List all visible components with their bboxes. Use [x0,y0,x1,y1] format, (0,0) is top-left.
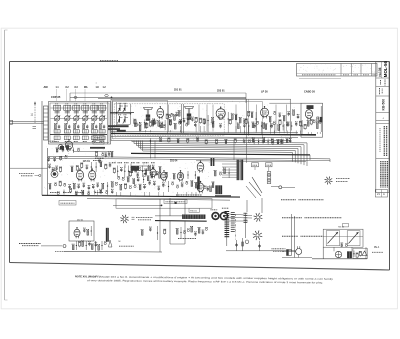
below-bus det row [248,138,288,145]
IF stage divider lines [181,104,183,133]
vacuum tube at 264,112 [261,106,269,118]
svg-text:PE A: PE A [374,246,380,249]
antenna bus wires [70,92,246,94]
lamp leads [229,214,252,216]
svg-text:LW AM: LW AM [49,140,56,143]
strip column wires [168,105,170,132]
IF strip bus lines [111,132,298,133]
svg-text:251 01: 251 01 [174,89,182,92]
page left shadow edge [4,30,6,300]
svg-text:MOL-56: MOL-56 [383,61,388,78]
svg-text:LP 26: LP 26 [261,91,268,94]
vacuum tube at 69,145 [65,139,72,151]
right vertical title strip [375,61,389,197]
bus tick labels [50,192,60,194]
svg-text:CABO 26: CABO 26 [304,91,315,94]
svg-text:AM: AM [44,85,48,89]
bus lower lines [48,156,330,159]
vacuum tube at 200,187 [197,181,204,193]
caption text [75,275,334,284]
svg-text:№104: №104 [378,67,382,76]
wire to volume [10,167,48,169]
schematic border frame [10,62,390,271]
tone pot box [131,166,148,171]
tuner inter-section wires [51,107,108,109]
band labels row [44,83,107,101]
bottom coil row [54,136,105,142]
osc boxes right [93,136,104,145]
first IF sub-box [113,100,168,133]
contact ladders [225,211,248,246]
vacuum tube at 153,173 [150,167,156,178]
dial lamp at 328,180 [325,177,333,185]
trimmer pot left [58,145,63,150]
function switch cluster [211,158,296,198]
left dark bars [108,125,129,127]
row under bus [150,137,292,144]
dark bar right of splitter [197,177,200,190]
IF coil at 189,106 [185,107,194,120]
IF cluster B [228,111,257,133]
speaker connector box [287,250,292,256]
svg-text:251 04: 251 04 [170,160,178,163]
output comps [301,119,321,134]
IF strip shield boxes [111,99,291,140]
sound trap label [19,174,41,177]
vacuum tube at 164,176 [161,170,167,182]
left long wires [41,101,43,195]
svg-text:253 01: 253 01 [217,89,225,92]
left dark pot cluster [214,168,231,196]
vertical connector wires [169,198,171,216]
svg-text:756 01: 756 01 [190,211,197,213]
trimmer row [54,124,105,129]
cable grommet rings [211,208,229,219]
long box under bus [116,199,212,209]
dark link bar [90,147,105,149]
svg-text:MA: MA [84,86,88,89]
comps after V2 [166,111,181,121]
vacuum tube at 160,113 [157,106,164,119]
right strip bottom cells [375,190,387,198]
svg-text:A: A [383,192,385,196]
REMOTE label + jack [19,243,41,245]
vacuum tube at 80,175 [76,168,83,181]
vacuum tube at 92,175 [89,168,96,181]
svg-text:250 01: 250 01 [77,219,84,221]
tuner block outline [49,102,111,145]
svg-text:KB-500: KB-500 [382,99,386,111]
power supply box [323,224,363,248]
svg-text:NOTE XXL (MODIFY): NOTE XXL (MODIFY) [75,275,100,278]
volume pot [51,171,58,178]
ps bottom comps [335,251,341,257]
vacuum tube at 77,233 [74,227,80,238]
vacuum tube at 200,167 [197,160,204,172]
AC plug [296,249,302,255]
svg-text:COP-65: COP-65 [51,95,61,99]
AF comps below [49,181,114,195]
note above frame [100,60,118,62]
phono preamp box [69,219,94,241]
IF cluster D low [134,120,182,133]
bus bundle nested wires [131,141,310,167]
svg-text:115 01: 115 01 [83,160,91,163]
tuner bottom bus [50,134,107,136]
variable capacitor row [54,110,105,124]
connector bar [182,215,205,219]
dial lamp at 258,217 [254,213,263,222]
vacuum tube at 180,176 [177,170,183,182]
control labels row [112,162,155,164]
mode caption lines [281,199,296,201]
vacuum tube at 309,114 [305,108,312,120]
dashed line w/ arrow left of tuner [10,102,44,129]
dial lamp at 258,235 [253,231,263,241]
AF comps top [56,148,80,154]
dial lamp at 124,219 [120,215,128,223]
vacuum tube at 221,113 [216,107,225,120]
wire marks [74,97,77,99]
IF cluster A [179,115,214,133]
main lower bus [42,195,240,197]
AF comps mid [71,161,112,172]
BAL label box [59,201,76,206]
IF coil at 148,108 [144,108,153,121]
IF mid fill row [136,119,290,129]
padder boxes row [54,130,105,133]
svg-text:M: M [119,241,121,243]
tuner coil boxes row [54,104,106,113]
756 01 label [189,208,200,212]
left input transistors [110,102,166,131]
output stage box [301,103,323,137]
IF cluster C [269,110,300,133]
detector comp row [243,121,302,134]
antenna coil left column [44,106,49,140]
title block row [297,64,378,79]
